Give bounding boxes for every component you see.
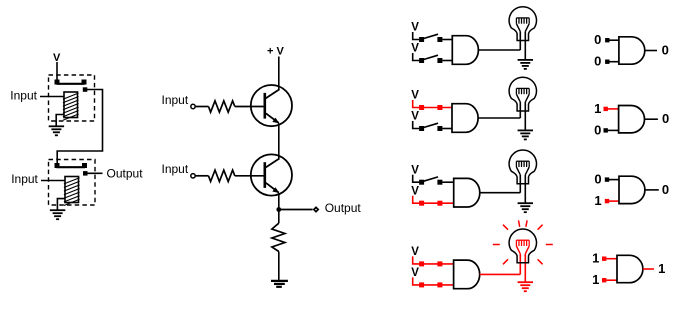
transistor Q1 (251, 85, 292, 126)
svg-text:+ V: + V (267, 46, 284, 58)
transistor Q2 (251, 154, 292, 195)
svg-text:1: 1 (658, 261, 665, 276)
wire +V to Q1 collector (278, 57, 280, 90)
wire input A (truth row 4) (606, 258, 617, 260)
lamp filament (516, 87, 529, 89)
svg-text:0: 0 (662, 111, 669, 126)
svg-text:0: 0 (662, 43, 669, 58)
wire input B (truth row 1) (609, 61, 619, 63)
AND gate (row 2) (452, 104, 478, 133)
wire input B (truth row 4) (606, 279, 617, 281)
wire gate output (truth row 1) (645, 50, 657, 52)
ground (lamp) (518, 281, 533, 283)
relay K2 fixed contact terminal (83, 171, 88, 176)
switch B (row 2) (413, 121, 420, 129)
lamp filament (516, 17, 529, 19)
switch A (row 3) (413, 175, 420, 183)
input terminal A (truth row 3) (605, 177, 609, 181)
svg-text:V: V (411, 267, 419, 279)
wire input B (truth row 2) (608, 129, 619, 131)
AND gate (truth row 1) (619, 37, 645, 64)
ground (lamp) (518, 202, 533, 204)
resistor R1 (209, 101, 235, 112)
lamp lead wires (519, 102, 521, 118)
input terminal B (truth row 4) (602, 278, 606, 282)
lamp filament (516, 160, 529, 162)
ground (lamp) (518, 59, 533, 61)
wire gate output (truth row 4) (643, 268, 654, 270)
wire input A (truth row 2) (608, 108, 619, 110)
relay K1 dashed enclosure (49, 75, 95, 121)
svg-text:0: 0 (594, 122, 601, 137)
wire Q2 emitter to output node (278, 193, 280, 210)
wire gate output to lamp (row 4) (480, 273, 521, 275)
AND gate (truth row 2) (619, 106, 645, 133)
lamp glass envelope (509, 77, 536, 111)
input terminal 1 (191, 104, 195, 108)
svg-text:Output: Output (325, 201, 362, 215)
AND gate (row 4) (454, 260, 480, 289)
wire Q1 emitter to Q2 collector (278, 123, 280, 158)
wire K2 coil to ground (57, 199, 65, 211)
ground (relay K1) (49, 125, 64, 127)
wire input 2 to resistor R2 (195, 175, 208, 177)
switch B (row 1) (413, 53, 420, 61)
svg-text:V: V (411, 185, 419, 197)
relay K1 fixed contact terminal (83, 87, 88, 92)
ground (transistor circuit) (271, 280, 288, 282)
input terminal A (truth row 4) (602, 257, 606, 261)
resistor R2 (209, 170, 235, 181)
svg-text:V: V (411, 164, 419, 176)
input terminal B (truth row 2) (604, 128, 608, 132)
svg-text:0: 0 (662, 182, 669, 197)
svg-text:V: V (411, 22, 419, 34)
wire input B (truth row 3) (609, 200, 619, 202)
wire K1 coil to ground (56, 115, 64, 127)
input terminal A (truth row 2) (604, 107, 608, 111)
svg-text:Input: Input (162, 93, 189, 107)
wire input 1 to resistor R1 (195, 106, 208, 108)
relay K2 coil (65, 177, 79, 203)
svg-text:0: 0 (594, 32, 601, 47)
wire gate output to lamp (row 3) (480, 192, 521, 194)
input terminal B (truth row 3) (605, 199, 609, 203)
wire gate output to lamp (row 2) (478, 117, 520, 119)
relay K1 coil (64, 92, 78, 118)
svg-text:1: 1 (592, 272, 599, 287)
svg-text:0: 0 (594, 172, 601, 187)
relay K1 contact armature (57, 83, 85, 85)
wire input 1 to K1 coil (40, 96, 64, 98)
lamp glass envelope (509, 229, 536, 263)
svg-text:Input: Input (162, 162, 189, 176)
AND gate (truth row 3) (619, 176, 645, 203)
wire gate output to lamp (row 1) (478, 49, 520, 51)
svg-text:1: 1 (594, 193, 601, 208)
svg-text:V: V (411, 90, 419, 102)
lamp lead wires (519, 32, 521, 51)
wire V to relay K1 contact (56, 62, 58, 84)
svg-text:1: 1 (592, 251, 599, 266)
resistor R3 (emitter load) (272, 223, 285, 251)
switch A (row 1) (413, 32, 420, 40)
wire R1 to Q1 base (235, 106, 264, 108)
node: output junction (276, 207, 281, 212)
relay K2 contact armature (57, 166, 86, 168)
wire R2 to Q2 base (235, 175, 264, 177)
svg-text:Input: Input (10, 88, 37, 102)
wire K1 contact to K2 contact (57, 90, 102, 165)
svg-text:V: V (411, 111, 419, 123)
AND gate (row 3) (454, 178, 480, 207)
lamp lead wires (519, 254, 521, 275)
AND gate (row 1) (452, 36, 478, 65)
relay K2 dashed enclosure (49, 160, 96, 206)
wire gate output (truth row 2) (644, 118, 658, 120)
svg-text:V: V (411, 246, 419, 258)
output terminal diamond (313, 206, 320, 213)
ground (relay K2) (50, 209, 65, 211)
svg-text:V: V (411, 43, 419, 55)
input terminal 2 (191, 174, 195, 178)
wire input A (truth row 3) (609, 179, 619, 181)
ground (lamp) (518, 129, 533, 131)
wire K2 contact to output (85, 172, 102, 174)
wire junction to output terminal (279, 209, 313, 211)
wire gate output (truth row 3) (645, 189, 659, 191)
svg-text:Output: Output (107, 167, 144, 181)
svg-text:Input: Input (11, 172, 38, 186)
switch B (row 3) (413, 196, 454, 204)
lamp glass envelope (509, 7, 536, 41)
AND gate (truth row 4) (617, 255, 643, 282)
lamp filament (516, 239, 529, 241)
lamp lead wires (519, 175, 521, 193)
wire junction to resistor R3 (278, 211, 280, 223)
switch A (row 4) (413, 256, 454, 264)
wire input A (truth row 1) (609, 39, 619, 41)
switch A (row 2) (413, 100, 452, 108)
lamp glass envelope (509, 150, 536, 184)
wire R3 to ground (278, 252, 280, 281)
svg-text:0: 0 (594, 54, 601, 69)
svg-text:1: 1 (594, 101, 601, 116)
input terminal B (truth row 1) (605, 60, 609, 64)
wire input 2 to K2 coil (41, 180, 65, 182)
input terminal A (truth row 1) (605, 38, 609, 42)
switch B (row 4) (413, 277, 454, 285)
light rays (526, 220, 527, 226)
